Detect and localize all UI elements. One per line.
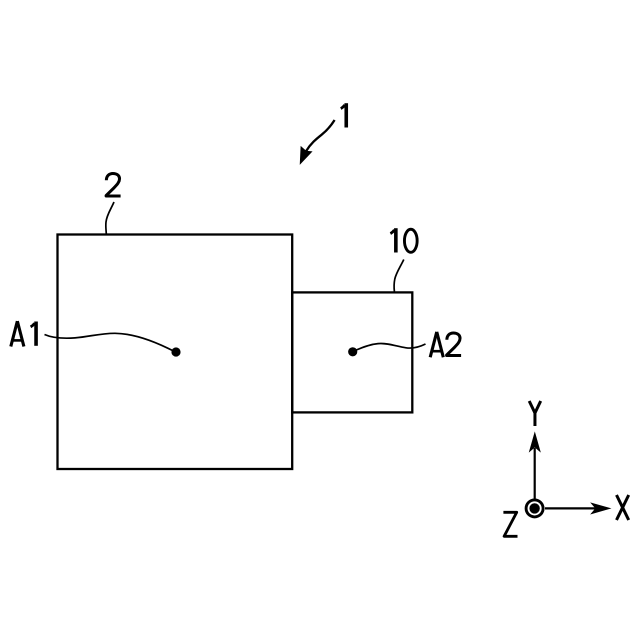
label 2 xyxy=(106,173,121,196)
leader line for label 2 xyxy=(106,202,114,234)
label A2 xyxy=(430,332,443,357)
label A1 xyxy=(11,321,24,346)
leader line A1 xyxy=(45,333,175,351)
label Y xyxy=(529,401,541,426)
leader line for label 10 xyxy=(394,260,404,292)
protrusion 10 (small square) xyxy=(292,292,412,412)
X axis arrowhead xyxy=(591,503,610,514)
label X xyxy=(617,495,629,520)
arrow for label 1 xyxy=(306,120,334,151)
Y axis arrowhead xyxy=(530,433,541,452)
label 1 xyxy=(341,103,346,127)
label Z xyxy=(503,512,517,536)
X axis line xyxy=(545,507,596,509)
leader line A2 xyxy=(354,343,426,351)
label 10 xyxy=(390,228,395,252)
body 2 (large square) xyxy=(58,235,293,470)
coordinate axes: Y axis line xyxy=(534,448,536,499)
point A2 (dot) xyxy=(348,347,357,356)
Z axis symbol (circle with dot, out of page) xyxy=(526,500,543,517)
point A1 (dot) xyxy=(171,347,180,356)
